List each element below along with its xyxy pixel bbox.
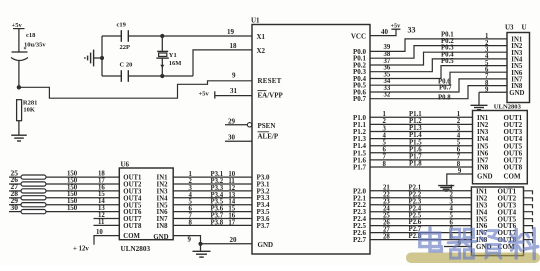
wire P3 row 1 [173, 176, 252, 178]
svg-text:11: 11 [98, 219, 105, 226]
svg-text:U1: U1 [251, 17, 260, 25]
wire P0 row 5 [370, 66, 507, 79]
svg-text:+5v: +5v [391, 22, 402, 29]
wire P1 row 6 [370, 152, 473, 154]
wire P0 row 2 [370, 46, 507, 59]
svg-text:IN8: IN8 [477, 164, 489, 172]
svg-text:33: 33 [408, 25, 416, 34]
wire U5 OUT8 stub [524, 240, 533, 244]
svg-text:P1.8: P1.8 [409, 161, 422, 168]
svg-text:+5v: +5v [12, 22, 23, 29]
svg-text:X2: X2 [257, 47, 266, 55]
svg-text:20: 20 [230, 236, 238, 244]
svg-text:21: 21 [383, 185, 390, 192]
svg-text:27: 27 [383, 226, 390, 233]
svg-text:OUT8: OUT8 [504, 164, 523, 172]
wire P1 row 2 [370, 123, 473, 125]
svg-text:3: 3 [383, 125, 387, 132]
wire pin 20 GND [201, 243, 253, 245]
svg-text:ALE/P: ALE/P [258, 132, 279, 140]
wire P2 row 4 [370, 211, 471, 213]
wire C19-C20 branch vertical [101, 36, 103, 76]
svg-text:Y1: Y1 [169, 52, 177, 59]
svg-text:8: 8 [457, 161, 461, 168]
crystal Y1 [161, 36, 163, 51]
svg-text:3: 3 [457, 125, 461, 132]
svg-text:ULN2803: ULN2803 [494, 104, 522, 111]
svg-text:COM: COM [504, 172, 522, 180]
wire P0 row 7 [370, 79, 507, 92]
svg-text:10K: 10K [23, 106, 35, 113]
resistor 150 row 5 [21, 203, 46, 207]
watermark text dian qi zi liao (drawn as vector strokes) [420, 228, 538, 259]
wire pin 29 PSEN stub [225, 124, 247, 126]
svg-text:6: 6 [450, 219, 454, 226]
svg-text:GND: GND [509, 90, 524, 97]
wire C19 to X1 (pin 19) [128, 35, 252, 37]
svg-text:IN8: IN8 [157, 223, 169, 230]
resistor 150 row 1 [21, 175, 46, 179]
svg-text:1: 1 [450, 185, 454, 192]
junction GND net [198, 242, 202, 246]
svg-text:RESET: RESET [258, 77, 282, 85]
ground (U1/U6 GND) [193, 250, 211, 252]
resistor 150 row 3 [21, 189, 46, 193]
svg-text:30: 30 [11, 203, 19, 212]
svg-text:C 20: C 20 [120, 62, 133, 69]
svg-text:U3: U3 [505, 24, 514, 32]
svg-text:P3.8: P3.8 [211, 219, 224, 226]
ground (crystal, rotated left) [93, 50, 95, 67]
ground (R281) [11, 134, 27, 136]
svg-text:16M: 16M [169, 60, 182, 67]
svg-text:17: 17 [228, 219, 235, 226]
ground (U3 GND) [471, 104, 488, 106]
wire P0 row 1 [370, 39, 507, 52]
wire P0 row 8 [370, 86, 507, 99]
wire P2 row 1 [370, 190, 471, 192]
svg-text:22P: 22P [120, 44, 131, 51]
wire P2 row 6 [370, 225, 471, 227]
resistor 150 row 6 [21, 210, 46, 214]
wire U6 pin 11 stub [94, 224, 120, 226]
svg-text:4: 4 [450, 205, 454, 212]
svg-text:150: 150 [67, 205, 78, 212]
wire U3 GND (pin 9) [479, 91, 507, 93]
wire P3 row 7 [173, 218, 252, 220]
wire P0 row 4 [370, 59, 507, 72]
svg-text:9: 9 [188, 237, 192, 244]
svg-text:4: 4 [457, 132, 461, 139]
wire C18 to node [18, 61, 20, 88]
node junction C18/R281/RESET [17, 85, 21, 89]
svg-text:P2.3: P2.3 [409, 198, 422, 205]
junction X2 node [160, 74, 164, 78]
ground (U4 GND) [438, 185, 454, 187]
svg-text:P1.7: P1.7 [353, 164, 367, 172]
wire pin 30 ALE stub [225, 140, 252, 142]
wire U6 GND (pin 9) to ground [173, 236, 200, 244]
svg-text:VCC: VCC [351, 33, 366, 41]
svg-text:COM: COM [123, 233, 140, 240]
wire U6 pin 12 stub [94, 218, 120, 220]
wire pin 31 [215, 95, 252, 97]
junction cap branch [100, 56, 104, 60]
capacitor C20 [120, 70, 122, 82]
wire to ground (U3 GND) [478, 92, 480, 105]
svg-text:8: 8 [383, 161, 387, 168]
+5V power bar [13, 28, 25, 30]
wire P0 row 6 [370, 72, 507, 85]
wire P1 row 4 [370, 138, 473, 140]
PSEN inversion bubble [247, 123, 251, 127]
svg-text:13: 13 [98, 205, 105, 212]
wire U5 OUT1 stub [524, 191, 533, 195]
svg-text:6: 6 [383, 147, 387, 154]
svg-text:40: 40 [381, 28, 389, 36]
svg-text:P1.2: P1.2 [409, 118, 422, 125]
svg-text:32: 32 [384, 92, 391, 99]
svg-text:P3.7: P3.7 [257, 222, 271, 230]
svg-text:31: 31 [230, 87, 238, 95]
svg-text:4: 4 [383, 132, 387, 139]
svg-text:19: 19 [227, 28, 235, 36]
svg-text:GND: GND [153, 234, 168, 241]
svg-text:2: 2 [383, 118, 387, 125]
svg-text:P1.7: P1.7 [409, 154, 422, 161]
svg-text:P1.1: P1.1 [409, 111, 422, 118]
+5V power symbol (VCC pin 40) [370, 29, 396, 35]
svg-text:P2.6: P2.6 [409, 219, 422, 226]
svg-text:18: 18 [230, 42, 238, 50]
svg-text:2: 2 [457, 118, 461, 125]
wire P2 row 8 [370, 239, 471, 241]
wire P3 row 3 [173, 190, 252, 192]
svg-text:9: 9 [458, 168, 462, 175]
wire P1 row 5 [370, 145, 473, 147]
watermark band [406, 253, 540, 264]
svg-text:GND: GND [258, 241, 274, 249]
wire U5 OUT3 stub [524, 205, 533, 209]
svg-text:PSEN: PSEN [258, 122, 276, 130]
svg-text:P1.6: P1.6 [409, 146, 422, 153]
wire U4 GND (pin 9) to ground [447, 174, 473, 185]
wire R281 to ground [18, 121, 20, 135]
wire P1 row 8 [370, 166, 473, 168]
svg-text:+5v: +5v [199, 90, 210, 97]
svg-text:P0.8: P0.8 [438, 95, 451, 102]
svg-text:P1.4: P1.4 [409, 132, 422, 139]
wire +5V to C18 [18, 29, 20, 52]
svg-text:P1.5: P1.5 [409, 139, 422, 146]
IC U5 ULN2803 body [471, 187, 523, 256]
svg-text:P0.5: P0.5 [441, 58, 454, 65]
capacitor C19 [120, 30, 122, 42]
wire P2 row 3 [370, 204, 471, 206]
wire P1 row 1 [370, 116, 473, 118]
svg-text:P2.1: P2.1 [409, 184, 422, 191]
wire P1 row 3 [370, 131, 473, 133]
svg-text:P2.7: P2.7 [353, 236, 367, 244]
wire ground to cap branch [94, 57, 102, 59]
svg-text:24: 24 [383, 205, 390, 212]
resistor 150 row 4 [21, 196, 46, 200]
wire U5 OUT4 stub [524, 212, 533, 216]
wire P3 row 8 [173, 224, 252, 226]
wire U5 OUT6 stub [524, 226, 533, 230]
svg-text:P0.7: P0.7 [353, 95, 367, 103]
svg-text:c18: c18 [26, 32, 36, 39]
svg-text:9: 9 [232, 72, 236, 80]
wire U5 OUT5 stub [524, 219, 533, 223]
svg-text:7: 7 [383, 154, 387, 161]
svg-text:X1: X1 [257, 33, 266, 41]
svg-text:ULN2803: ULN2803 [121, 245, 151, 253]
IC U3 body [507, 33, 530, 103]
svg-text:7: 7 [457, 154, 461, 161]
svg-text:10u/35v: 10u/35v [24, 42, 46, 49]
wire to C20 [102, 75, 121, 77]
svg-text:6: 6 [457, 147, 461, 154]
svg-text:30: 30 [228, 134, 236, 142]
svg-text:1: 1 [383, 111, 387, 118]
IC U4 ULN2803 body [473, 111, 528, 184]
svg-text:GND: GND [477, 172, 493, 180]
wire P2 row 7 [370, 232, 471, 234]
svg-text:c19: c19 [117, 22, 127, 29]
svg-text:8: 8 [189, 219, 193, 226]
capacitor C18 polarized [12, 51, 28, 53]
resistor R281 [17, 100, 22, 121]
wire P0 row 3 [370, 52, 507, 65]
svg-text:1: 1 [457, 111, 461, 118]
wire U6 COM (pin 10) to +12v [94, 236, 119, 245]
wire P2 row 5 [370, 218, 471, 220]
wire C20 to X2 branch [128, 75, 193, 77]
svg-text:P1.3: P1.3 [409, 125, 422, 132]
svg-text:U6: U6 [121, 161, 130, 169]
wire U5 pin 9 stub [444, 246, 471, 248]
wire P3 row 2 [173, 183, 252, 185]
svg-text:10: 10 [96, 229, 103, 236]
svg-text:9: 9 [485, 86, 489, 93]
svg-text:EA/VPP: EA/VPP [258, 91, 284, 99]
svg-text:OUT8: OUT8 [123, 223, 142, 230]
wire to C19 [102, 35, 121, 37]
wire U5 OUT2 stub [524, 198, 533, 202]
svg-text:P0.7: P0.7 [439, 85, 452, 92]
svg-text:29: 29 [228, 117, 236, 125]
svg-text:28: 28 [383, 233, 390, 240]
svg-text:26: 26 [383, 219, 390, 226]
svg-text:3: 3 [450, 198, 454, 205]
wire P1 row 7 [370, 159, 473, 161]
svg-text:P2.4: P2.4 [409, 205, 422, 212]
svg-text:+ 12v: + 12v [73, 246, 89, 253]
wire U5 OUT7 stub [524, 233, 533, 237]
junction X1 node [160, 34, 164, 38]
op-amp U1 MCU body [252, 25, 370, 255]
svg-text:5: 5 [383, 140, 387, 147]
wire P3 row 6 [173, 211, 252, 213]
wire P3 row 5 [173, 204, 252, 206]
resistor 150 row 2 [21, 182, 46, 186]
wire P3 row 4 [173, 197, 252, 199]
IC U6 ULN2803 body [119, 168, 173, 240]
wire P2 row 2 [370, 197, 471, 199]
wire node to RESET pin 9 [19, 81, 252, 98]
wire X2 (pin 18) [193, 50, 252, 76]
svg-text:U: U [522, 24, 527, 32]
wire to ground (U1 GND) [200, 244, 202, 251]
svg-text:5: 5 [457, 140, 461, 147]
svg-text:23: 23 [383, 198, 390, 205]
